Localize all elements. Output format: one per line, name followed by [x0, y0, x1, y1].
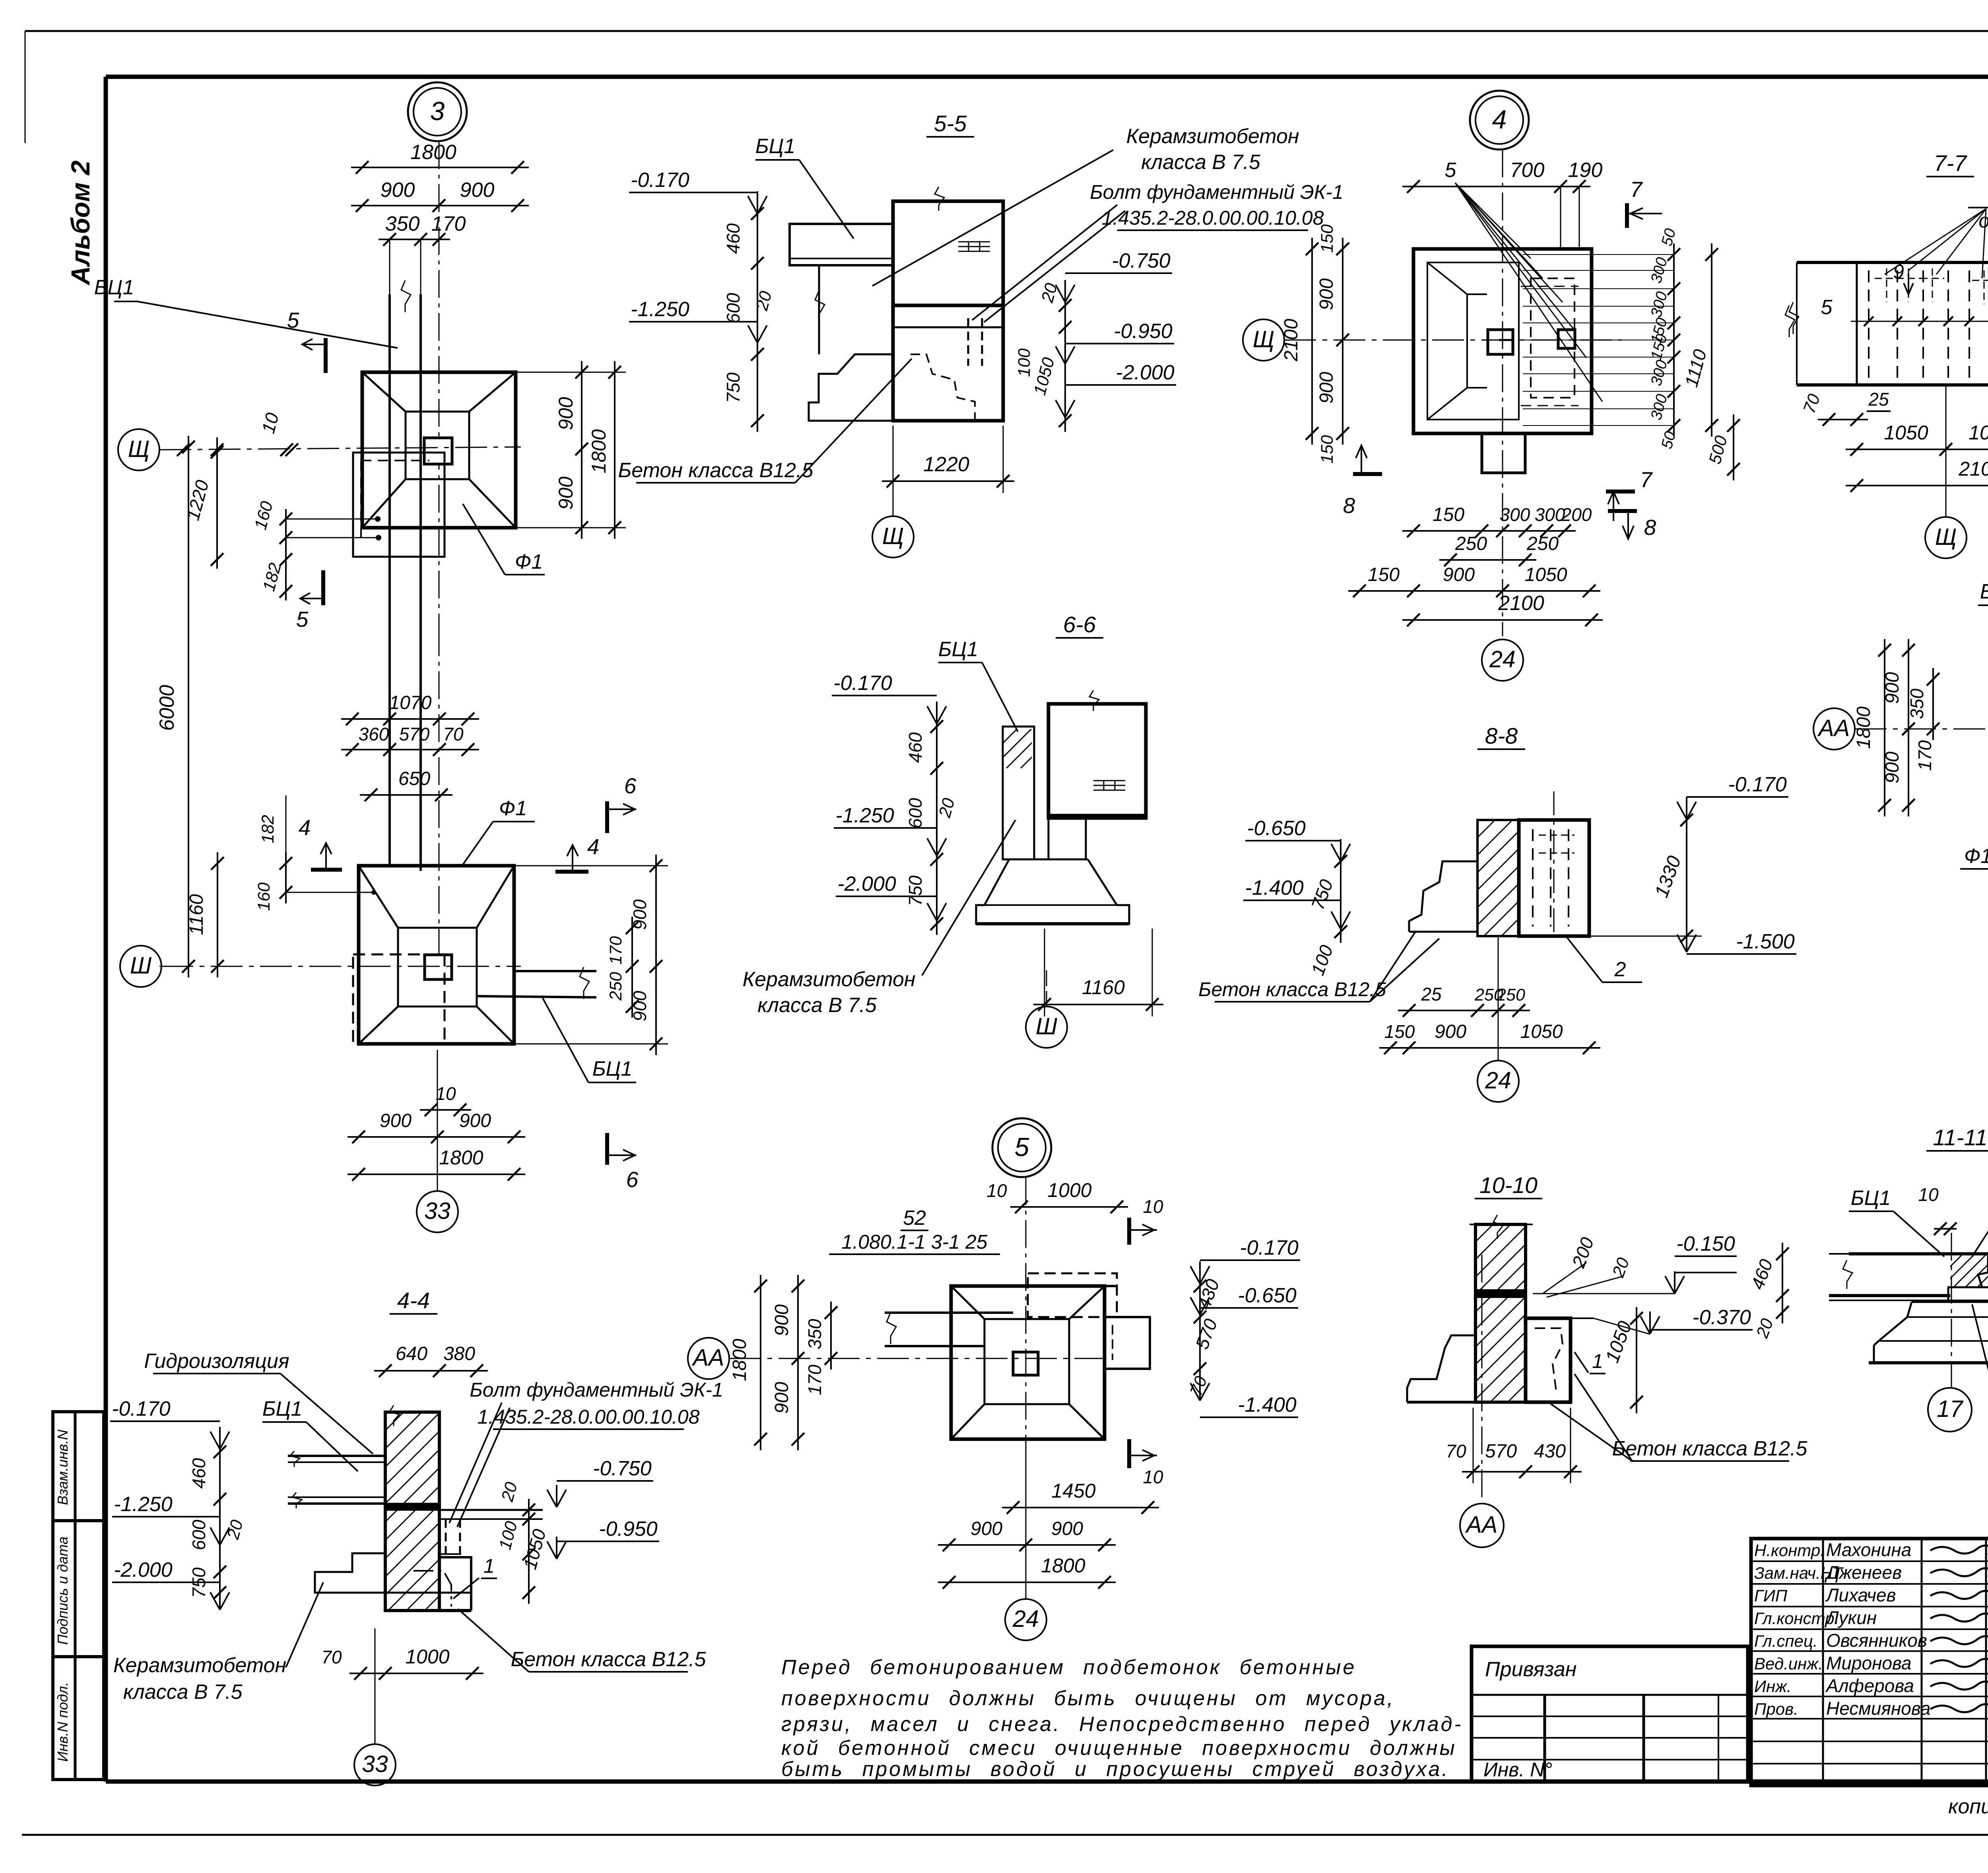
svg-text:Вед.инж.: Вед.инж.: [1754, 1654, 1823, 1673]
section mark 8 right: [1608, 509, 1637, 513]
svg-text:Керамзитобетон: Керамзитобетон: [1126, 125, 1299, 148]
svg-text:150: 150: [1384, 1021, 1415, 1042]
svg-text:поверхности должны быть оч: поверхности должны быть очищены от мусор…: [781, 1687, 1395, 1710]
svg-text:АА: АА: [1817, 715, 1850, 741]
svg-text:4-4: 4-4: [397, 1288, 430, 1313]
svg-text:-1.250: -1.250: [631, 298, 689, 321]
svg-text:-1.250: -1.250: [835, 804, 894, 827]
6-6 axis bubble Sh: [1046, 970, 1047, 1006]
svg-text:1070: 1070: [389, 692, 432, 713]
svg-text:9: 9: [1893, 260, 1904, 283]
7-7 top hook rebar dashed: [1875, 278, 1899, 279]
section mark 8 left: [1353, 472, 1382, 476]
svg-text:1450: 1450: [1051, 1480, 1095, 1502]
svg-text:7: 7: [1640, 467, 1653, 492]
svg-text:БЦ1: БЦ1: [1851, 1187, 1891, 1210]
svg-text:460: 460: [905, 732, 926, 763]
5-5 axis Shch circle: [872, 516, 914, 558]
svg-text:900: 900: [1316, 372, 1337, 404]
svg-text:Подпись и дата: Подпись и дата: [54, 1537, 71, 1645]
4-4 dims 640 380: [374, 1370, 488, 1372]
svg-text:4: 4: [1492, 105, 1507, 134]
svg-text:-1.400: -1.400: [1245, 876, 1304, 900]
svg-text:-0.750: -0.750: [593, 1457, 652, 1480]
svg-text:Бетон класса В12.5: Бетон класса В12.5: [618, 459, 814, 482]
svg-text:Ш: Ш: [1036, 1013, 1058, 1039]
5-5 anchor bolt dashed: [967, 318, 969, 366]
title block pривязан box: [1472, 1646, 1748, 1782]
svg-text:-2.000: -2.000: [114, 1558, 173, 1582]
svg-text:350: 350: [804, 1319, 825, 1349]
node 4 centerline vertical: [1502, 150, 1503, 636]
svg-text:-1.250: -1.250: [114, 1493, 173, 1516]
6-6 left dim chain: [936, 715, 938, 935]
svg-text:70: 70: [321, 1647, 342, 1667]
svg-text:Бетон класса В12.5: Бетон класса В12.5: [1198, 978, 1386, 1001]
svg-text:900: 900: [771, 1382, 792, 1414]
node 6 axis AA circle: [1813, 708, 1855, 750]
svg-text:460: 460: [723, 223, 744, 254]
svg-text:600: 600: [723, 293, 744, 323]
svg-text:-1.500: -1.500: [1736, 930, 1795, 953]
svg-text:класса В 7.5: класса В 7.5: [757, 994, 877, 1017]
svg-text:900: 900: [555, 397, 577, 430]
svg-text:-0.170: -0.170: [631, 169, 689, 192]
svg-text:900: 900: [555, 476, 577, 510]
axis Shch circle: [118, 429, 159, 470]
node 4 column left: [1488, 330, 1513, 354]
node33 plan: [359, 866, 514, 1044]
svg-text:24: 24: [1489, 646, 1516, 672]
svg-text:900: 900: [971, 1518, 1002, 1539]
svg-text:6-6: 6-6: [1063, 612, 1096, 637]
8-8 left dims 750 100: [1340, 850, 1342, 943]
svg-text:1: 1: [483, 1555, 495, 1577]
svg-text:1: 1: [1592, 1350, 1603, 1372]
10-10 axis AA bubble: [1460, 1504, 1504, 1547]
svg-text:25: 25: [1421, 984, 1442, 1005]
node 4 right rebar dim column: [1673, 243, 1675, 437]
svg-text:1160: 1160: [186, 894, 207, 935]
node 4 plan outline: [1413, 249, 1592, 433]
4-4 lower pit: [315, 1553, 385, 1593]
svg-text:1000: 1000: [405, 1646, 449, 1668]
svg-text:Дженеев: Дженеев: [1824, 1562, 1902, 1583]
svg-text:1050: 1050: [1884, 422, 1928, 444]
svg-text:5: 5: [1821, 296, 1833, 319]
axis Shch line: [159, 447, 521, 450]
svg-text:900: 900: [1051, 1518, 1083, 1539]
node 3 dim 350 170: [379, 239, 450, 240]
svg-text:Щ: Щ: [1253, 326, 1274, 352]
svg-text:1800: 1800: [410, 141, 456, 164]
svg-text:Инж.: Инж.: [1754, 1677, 1792, 1696]
svg-text:Альбом 2: Альбом 2: [66, 160, 95, 286]
svg-text:6: 6: [624, 773, 637, 798]
node33 dim 1160: [217, 852, 218, 977]
svg-text:Щ: Щ: [128, 436, 149, 462]
svg-text:БЦ1: БЦ1: [592, 1057, 633, 1080]
wall panel BC1 strip vertical: [388, 294, 391, 557]
4-4 dark band: [385, 1504, 439, 1510]
svg-text:1000: 1000: [1047, 1179, 1091, 1201]
node5 left dims: [760, 1275, 761, 1450]
svg-text:10: 10: [1143, 1196, 1163, 1217]
10-10 dark band: [1475, 1290, 1526, 1297]
svg-text:900: 900: [1443, 564, 1475, 585]
svg-text:БЦ1: БЦ1: [755, 135, 796, 158]
svg-text:350: 350: [385, 212, 420, 235]
svg-text:1050: 1050: [1969, 422, 1988, 444]
6-6 column: [1048, 704, 1146, 818]
svg-text:10: 10: [1918, 1184, 1939, 1205]
svg-text:11-11: 11-11: [1933, 1125, 1987, 1150]
node 4 bubble: [1470, 91, 1529, 150]
svg-text:БЦ1: БЦ1: [938, 638, 978, 661]
svg-text:6: 6: [626, 1167, 639, 1192]
svg-text:Лукин: Лукин: [1825, 1607, 1877, 1628]
8-8 axis bubble 24: [1498, 936, 1499, 1061]
svg-text:-2.000: -2.000: [837, 872, 896, 896]
svg-text:650: 650: [398, 768, 430, 789]
svg-text:170: 170: [1914, 740, 1935, 771]
svg-text:150: 150: [1433, 504, 1464, 525]
node33 wall strips from node3: [388, 557, 391, 866]
svg-text:Лихачев: Лихачев: [1825, 1585, 1896, 1605]
10-10 right block: [1526, 1318, 1571, 1402]
svg-text:-2.000: -2.000: [1116, 361, 1175, 384]
svg-text:Ш: Ш: [130, 952, 152, 979]
5-5 column: [893, 201, 1003, 421]
node 4 pyramid left part: [1427, 262, 1519, 420]
svg-text:900: 900: [1882, 672, 1903, 704]
svg-text:350: 350: [1906, 688, 1927, 719]
svg-text:2100: 2100: [1281, 319, 1302, 361]
svg-text:-0.170: -0.170: [1728, 773, 1787, 796]
node33 dim 6000: [188, 436, 189, 977]
svg-text:570: 570: [399, 724, 430, 744]
svg-text:640: 640: [396, 1343, 427, 1364]
svg-text:Гл.спец.: Гл.спец.: [1754, 1632, 1818, 1650]
margin stamp boxes: [53, 1412, 104, 1780]
svg-text:6000: 6000: [155, 685, 179, 731]
4-4 hatched column: [385, 1412, 439, 1611]
svg-text:25: 25: [1868, 389, 1889, 410]
node5 bubble 24: [1025, 1444, 1027, 1599]
svg-text:250: 250: [1526, 533, 1559, 554]
svg-text:33: 33: [424, 1198, 450, 1224]
svg-text:5-5: 5-5: [934, 111, 967, 136]
5-5 floor ledge left: [790, 224, 893, 265]
6-6 bottom dim 1160: [1033, 1004, 1163, 1005]
6-6 floor line: [1048, 814, 1146, 818]
svg-text:грязи, масел и снега. Непоср: грязи, масел и снега. Непосредственно пе…: [781, 1713, 1463, 1736]
svg-text:-0.650: -0.650: [1238, 1284, 1297, 1307]
svg-text:430: 430: [1534, 1441, 1566, 1462]
svg-text:70: 70: [443, 724, 464, 744]
node5 flag 10 bottom right: [1127, 1439, 1131, 1468]
node5 flag 10 right top: [1127, 1218, 1131, 1245]
svg-text:1800: 1800: [588, 429, 610, 473]
svg-text:Инв. N°: Инв. N°: [1483, 1758, 1552, 1781]
node33 adjacent dashed rect: [353, 954, 445, 1044]
7-7 vertical rebar dashed: [1868, 270, 1870, 378]
svg-text:1160: 1160: [1082, 976, 1125, 999]
svg-text:5: 5: [287, 308, 299, 332]
5-5 right dim chain: [1064, 294, 1066, 432]
node 6 left dims: [1884, 639, 1885, 816]
svg-text:190: 190: [1568, 159, 1603, 182]
svg-text:8: 8: [1343, 493, 1355, 518]
svg-text:1.080.1-1 3-1 25: 1.080.1-1 3-1 25: [842, 1231, 988, 1253]
11-11 left dims 460 20: [1782, 1243, 1783, 1323]
svg-text:900: 900: [381, 179, 415, 202]
svg-text:1220: 1220: [923, 453, 969, 476]
svg-text:160: 160: [254, 882, 274, 911]
4-4 left panel lines: [288, 1455, 385, 1457]
svg-text:Бетон класса В12.5: Бетон класса В12.5: [511, 1648, 707, 1671]
svg-text:380: 380: [443, 1343, 475, 1364]
svg-text:10: 10: [986, 1180, 1007, 1201]
10-10 centerline: [1481, 1255, 1483, 1499]
svg-text:600: 600: [905, 798, 926, 828]
section mark 4 top: [311, 868, 342, 872]
10-10 dim 1050 right: [1636, 1307, 1637, 1413]
svg-text:5: 5: [1015, 1132, 1029, 1162]
svg-text:Несмиянова: Несмиянова: [1826, 1698, 1930, 1719]
node 4 left dim chains: [1311, 238, 1313, 445]
8-8 hatched wall: [1477, 820, 1519, 936]
node33 right dims 900 170 250 900: [655, 855, 657, 1055]
7-7 slab outline: [1797, 261, 1988, 264]
svg-text:Махонина: Махонина: [1826, 1539, 1911, 1560]
8-8 bottom dims: [1398, 1010, 1530, 1011]
svg-text:Пров.: Пров.: [1754, 1700, 1798, 1718]
svg-text:1050: 1050: [1525, 564, 1567, 585]
4-4 right dims 20 100 1050: [528, 1499, 530, 1604]
11-11 centerline: [1951, 1233, 1952, 1388]
4-4 left dim chain: [219, 1441, 221, 1604]
svg-text:2: 2: [1614, 958, 1626, 981]
svg-text:8-8: 8-8: [1485, 723, 1518, 749]
svg-text:170: 170: [431, 212, 466, 235]
svg-text:1800: 1800: [1041, 1554, 1085, 1577]
svg-text:1800: 1800: [729, 1339, 750, 1381]
section mark 7 lower: [1606, 490, 1635, 494]
svg-text:8: 8: [1644, 515, 1656, 540]
node 3 bubble: [408, 82, 467, 141]
node33 dims 1070 360 570 70 650: [341, 718, 479, 720]
svg-text:900: 900: [771, 1304, 792, 1336]
svg-text:АА: АА: [1465, 1512, 1498, 1538]
10-10 left steps: [1407, 1335, 1475, 1402]
svg-text:10: 10: [435, 1083, 456, 1104]
5-5 wall left edge: [818, 265, 820, 354]
node 4 inner step: [1488, 330, 1513, 354]
node 3 vertical centerline: [439, 141, 440, 628]
svg-text:Инв.N подл.: Инв.N подл.: [54, 1682, 71, 1762]
node 3 dims left small: [216, 437, 218, 569]
svg-text:5: 5: [296, 607, 309, 631]
svg-text:150: 150: [1368, 564, 1400, 585]
svg-text:Алферова: Алферова: [1825, 1675, 1914, 1696]
svg-text:БЦ1: БЦ1: [262, 1397, 303, 1420]
10-10 dashed bell inside: [1535, 1328, 1563, 1394]
svg-text:Перед бетонированием подбето: Перед бетонированием подбетонок бетонные: [781, 1656, 1356, 1679]
svg-text:100: 100: [1015, 348, 1034, 377]
svg-text:570: 570: [1485, 1441, 1517, 1462]
svg-text:-0.170: -0.170: [112, 1397, 171, 1420]
svg-text:4: 4: [587, 834, 600, 859]
svg-text:-0.650: -0.650: [1247, 817, 1306, 840]
svg-text:-0.950: -0.950: [1114, 320, 1173, 343]
svg-text:Щ: Щ: [882, 523, 904, 549]
4-4 anchor bolt dashed: [445, 1519, 447, 1557]
node33 bubble 33: [437, 1050, 438, 1191]
svg-text:10-10: 10-10: [1479, 1173, 1538, 1198]
node 3 adjacent foundation dashed: [353, 453, 445, 557]
svg-text:класса В 7.5: класса В 7.5: [1141, 151, 1261, 174]
5-5 bottom dim 1220: [882, 480, 1014, 482]
node5 top dims 10 1000: [1010, 1206, 1128, 1208]
svg-text:Болт фундаментный ЭК-1: Болт фундаментный ЭК-1: [1090, 181, 1343, 203]
6-6 footing bell: [1048, 818, 1050, 859]
8-8 top centerline: [1553, 791, 1555, 936]
svg-text:быть промыты водой и прос: быть промыты водой и просушены струей во…: [781, 1758, 1450, 1781]
7-7 axis bubble Shch: [1945, 385, 1947, 517]
4-4 right ledge: [439, 1509, 543, 1511]
svg-text:кой бетонной смеси очищенны: кой бетонной смеси очищенные поверхности…: [781, 1737, 1457, 1760]
svg-text:БЦ1: БЦ1: [94, 276, 134, 299]
node33 bottom dims: [420, 1109, 471, 1111]
svg-text:200: 200: [1561, 504, 1592, 525]
svg-text:750: 750: [905, 875, 926, 906]
svg-text:900: 900: [459, 1110, 491, 1131]
node5 axis AA: [688, 1338, 729, 1379]
svg-text:250: 250: [1455, 533, 1487, 554]
svg-text:300: 300: [1500, 504, 1530, 525]
svg-text:-0.370: -0.370: [1692, 1306, 1751, 1329]
svg-text:7-7: 7-7: [1934, 151, 1968, 176]
8-8 left steps: [1409, 861, 1477, 932]
svg-text:Гидроизоляция: Гидроизоляция: [144, 1350, 289, 1373]
axis Sh circle left: [120, 946, 161, 987]
4-4 bubble 33: [375, 1628, 376, 1744]
svg-text:2100: 2100: [1498, 592, 1544, 615]
svg-text:250: 250: [606, 972, 625, 1001]
svg-text:170: 170: [804, 1364, 825, 1395]
svg-text:Болт фундаментный ЭК-1: Болт фундаментный ЭК-1: [470, 1379, 723, 1401]
section mark 7 upper: [1625, 203, 1629, 228]
node5 right strip: [1105, 1317, 1150, 1369]
section mark 5 lower: [321, 570, 325, 605]
svg-text:900: 900: [1435, 1021, 1466, 1042]
axis Shch circle left of node4: [1243, 319, 1284, 361]
svg-text:250: 250: [1496, 985, 1525, 1005]
node 3 foundation F1 plan: [362, 372, 516, 528]
node 3 dim right 900 900 1800: [581, 361, 582, 539]
svg-text:Взам.инв.N: Взам.инв.N: [54, 1429, 71, 1505]
svg-text:Керамзитобетон: Керамзитобетон: [113, 1654, 286, 1677]
svg-text:Керамзитобетон: Керамзитобетон: [742, 968, 915, 991]
title block signatures scribbles: [1930, 1545, 1988, 1553]
svg-text:900: 900: [1316, 278, 1337, 310]
section mark 6 lower right: [605, 1133, 609, 1165]
svg-text:900: 900: [1882, 752, 1903, 783]
svg-text:52: 52: [903, 1207, 926, 1230]
5-5 left dim chain: [757, 202, 758, 432]
node 3 dim 1800 top: [351, 167, 529, 168]
svg-text:150: 150: [1318, 435, 1337, 464]
svg-text:10: 10: [1143, 1467, 1163, 1487]
svg-text:2100: 2100: [1958, 458, 1988, 480]
svg-text:5: 5: [1445, 159, 1457, 182]
svg-text:Привязан: Привязан: [1485, 1658, 1576, 1681]
11-11 slab BC1: [1849, 1252, 1988, 1255]
svg-text:-0.950: -0.950: [599, 1517, 658, 1541]
4-4 dash-dot inside pit: [414, 1571, 451, 1607]
10-10 wall hatched: [1475, 1224, 1526, 1402]
node 3 column section: [424, 438, 452, 464]
svg-text:600: 600: [188, 1519, 209, 1550]
svg-text:Бетон класса В12.5: Бетон класса В12.5: [1612, 1437, 1808, 1460]
svg-text:900: 900: [380, 1110, 412, 1131]
svg-text:БЦ1: БЦ1: [1980, 580, 1988, 603]
svg-text:-0.150: -0.150: [1676, 1232, 1735, 1255]
svg-text:Ф1: Ф1: [1964, 845, 1988, 868]
svg-text:300: 300: [1535, 504, 1565, 525]
node5 bubble: [992, 1118, 1051, 1177]
svg-text:33: 33: [362, 1751, 388, 1777]
8-8 right block: [1519, 820, 1589, 936]
node 4 horizontal rebar lines: [1523, 254, 1674, 255]
svg-text:17: 17: [1937, 1396, 1964, 1422]
svg-text:Н.контр.: Н.контр.: [1754, 1541, 1825, 1560]
svg-text:-0.170: -0.170: [833, 672, 892, 695]
svg-text:-1.400: -1.400: [1238, 1393, 1297, 1416]
svg-text:3: 3: [430, 96, 445, 126]
section mark 5 upper: [324, 338, 328, 373]
svg-text:Миронова: Миронова: [1826, 1653, 1912, 1673]
svg-text:460: 460: [188, 1458, 209, 1488]
svg-text:ГИП: ГИП: [1754, 1586, 1788, 1605]
8-8 right dim 1330: [1686, 809, 1687, 947]
svg-text:1050: 1050: [1520, 1021, 1563, 1042]
svg-text:-0.750: -0.750: [1112, 249, 1171, 272]
svg-text:Овсянников: Овсянников: [1826, 1630, 1927, 1651]
6-6 BC1 panel: [1003, 727, 1034, 859]
sheet outer border: [25, 30, 1988, 32]
node 4 bottom dim chains: [1402, 530, 1576, 532]
svg-text:900: 900: [460, 179, 495, 202]
node 4 bottom stub: [1482, 433, 1525, 473]
svg-text:24: 24: [1485, 1067, 1511, 1094]
11-11 bell footing: [1948, 1287, 1988, 1302]
5-5 footing: [809, 354, 1003, 421]
7-7 axis line with ticks: [1851, 321, 1988, 322]
svg-text:150: 150: [1318, 224, 1337, 253]
node 4 leader fan 5: [1455, 183, 1531, 258]
node33 BC1 wall right strip: [514, 970, 596, 972]
5-5 levels inside: [893, 304, 1003, 307]
svg-text:7: 7: [1630, 177, 1643, 202]
node5 plan: [951, 1286, 1105, 1439]
svg-text:24: 24: [1012, 1606, 1039, 1632]
section mark 6 upper right: [605, 801, 609, 833]
node 4 top dims 700 190: [1402, 186, 1590, 187]
11-11 bearing seat hatched: [1950, 1254, 1988, 1287]
svg-text:АА: АА: [692, 1345, 724, 1371]
